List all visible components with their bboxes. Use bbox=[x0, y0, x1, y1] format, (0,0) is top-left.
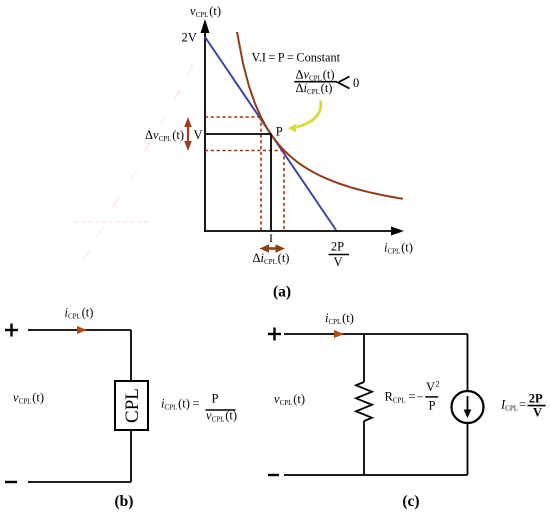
svg-text:0: 0 bbox=[353, 76, 359, 90]
current source wire top bbox=[467, 334, 469, 391]
svg-text:(b): (b) bbox=[115, 493, 134, 510]
svg-text:iCPL(t): iCPL(t) bbox=[65, 306, 94, 321]
I source equation bbox=[500, 391, 546, 419]
svg-text:(a): (a) bbox=[273, 284, 291, 301]
svg-text:=: = bbox=[193, 397, 200, 411]
svg-text:vCPL(t): vCPL(t) bbox=[13, 391, 44, 406]
faint artifact dashes left side bbox=[74, 221, 148, 223]
CPL box bbox=[115, 381, 148, 430]
svg-text:iCPL(t): iCPL(t) bbox=[384, 241, 413, 256]
solid I vertical line bbox=[270, 134, 272, 231]
svg-text:ΔiCPL(t): ΔiCPL(t) bbox=[253, 251, 290, 266]
solid V horizontal line bbox=[205, 133, 271, 135]
svg-text:V: V bbox=[333, 255, 342, 269]
svg-text:V: V bbox=[533, 405, 542, 419]
svg-text:iCPL(t): iCPL(t) bbox=[161, 397, 190, 412]
minus terminal bbox=[5, 481, 17, 483]
svg-text:P: P bbox=[212, 392, 219, 406]
right wire down to box bbox=[130, 330, 132, 381]
svg-text:2V: 2V bbox=[182, 31, 197, 45]
equation i = P / v bbox=[161, 392, 237, 424]
dashed vertical left bbox=[260, 117, 262, 231]
resistor branch wire bottom bbox=[363, 421, 365, 475]
red double arrow horizontal (delta i) bbox=[260, 244, 286, 253]
svg-text:2: 2 bbox=[436, 380, 440, 389]
blue load line bbox=[205, 37, 336, 230]
svg-text:2P: 2P bbox=[529, 391, 543, 405]
svg-text:=: = bbox=[408, 390, 415, 404]
svg-text:P: P bbox=[429, 398, 436, 412]
svg-text:2P: 2P bbox=[331, 240, 344, 254]
dashed vertical right bbox=[283, 151, 285, 232]
svg-text:iCPL(t): iCPL(t) bbox=[325, 311, 354, 326]
current arrow on wire bbox=[77, 326, 87, 334]
y-axis bbox=[201, 19, 210, 232]
svg-text:V: V bbox=[194, 128, 203, 142]
svg-text:vCPL(t): vCPL(t) bbox=[206, 409, 237, 424]
fraction dv/di < 0 bbox=[294, 67, 359, 96]
red double arrow vertical (delta v) bbox=[184, 117, 192, 151]
bottom wire bbox=[284, 474, 468, 476]
yellow curved arrow bbox=[288, 101, 321, 133]
current arrow on wire bbox=[334, 330, 344, 338]
current source circle bbox=[452, 391, 484, 423]
svg-text:ΔiCPL(t): ΔiCPL(t) bbox=[296, 81, 333, 96]
svg-text:vCPL(t): vCPL(t) bbox=[190, 4, 221, 19]
svg-text:RCPL: RCPL bbox=[385, 390, 406, 405]
svg-text:(c): (c) bbox=[402, 493, 419, 510]
dashed horizontal lower bbox=[205, 150, 285, 152]
svg-text:V: V bbox=[426, 380, 435, 394]
wire box to bottom bbox=[130, 430, 132, 482]
2P/V fraction on x axis bbox=[329, 240, 350, 270]
svg-text:V.I = P = Constant: V.I = P = Constant bbox=[252, 51, 341, 65]
top wire bbox=[284, 333, 468, 335]
svg-text:CPL: CPL bbox=[122, 388, 143, 423]
top wire bbox=[28, 329, 131, 331]
brown hyperbola curve V.I = P bbox=[237, 32, 403, 199]
svg-text:I: I bbox=[269, 231, 273, 245]
bottom wire bbox=[28, 481, 131, 483]
current source wire bottom bbox=[467, 423, 469, 475]
svg-text:P: P bbox=[276, 125, 283, 139]
plus terminal bbox=[5, 324, 18, 337]
R label bbox=[385, 380, 440, 413]
svg-text:ICPL: ICPL bbox=[500, 398, 518, 413]
resistor RCPL zigzag bbox=[356, 382, 372, 421]
plus terminal bbox=[268, 328, 281, 341]
svg-text:vCPL(t): vCPL(t) bbox=[274, 392, 305, 407]
resistor branch wire top bbox=[363, 334, 365, 382]
svg-text:=: = bbox=[519, 397, 526, 411]
minus terminal bbox=[268, 474, 279, 476]
svg-text:−: − bbox=[417, 390, 424, 404]
x-axis bbox=[204, 227, 404, 236]
dashed horizontal upper bbox=[205, 116, 262, 118]
current source arrow bbox=[467, 396, 469, 411]
svg-text:ΔvCPL(t): ΔvCPL(t) bbox=[145, 128, 184, 143]
